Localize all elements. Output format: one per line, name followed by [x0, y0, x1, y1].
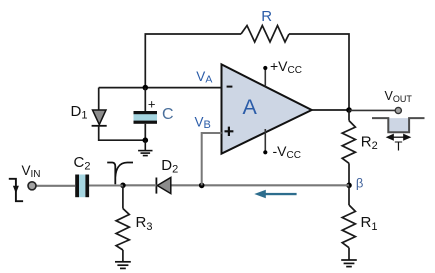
- capacitor C2: [75, 175, 89, 198]
- svg-text:C: C: [162, 106, 174, 123]
- svg-text:R: R: [261, 8, 272, 25]
- svg-text:R2: R2: [361, 134, 378, 153]
- svg-text:VOUT: VOUT: [385, 89, 413, 104]
- node -Vcc dot: [263, 150, 267, 154]
- wire op-amp output: [312, 109, 349, 111]
- svg-text:+: +: [148, 97, 156, 112]
- wire R1 bottom lead: [348, 248, 350, 260]
- svg-text:VA: VA: [196, 69, 212, 86]
- node +Vcc dot: [263, 66, 267, 70]
- arrow current direction: [254, 190, 296, 198]
- ground under R1: [341, 260, 357, 267]
- terminal Vin: [28, 182, 36, 190]
- node junction VA: [143, 85, 149, 91]
- terminal Vout: [395, 107, 401, 113]
- resistor R3: [116, 185, 129, 261]
- svg-text:D2: D2: [161, 157, 178, 176]
- wire R2 top lead: [348, 110, 350, 121]
- node output junction: [346, 107, 352, 113]
- wire D1 bottom lead: [99, 126, 146, 140]
- wire feedback right top: [289, 34, 349, 110]
- waveform output pulse: [372, 118, 425, 132]
- wire D1 top lead: [98, 88, 100, 110]
- svg-text:R1: R1: [361, 214, 378, 233]
- svg-text:VB: VB: [195, 114, 211, 131]
- node beta: [346, 183, 352, 189]
- trigger spike symbol: [107, 163, 133, 185]
- ground under R3: [115, 262, 131, 269]
- label op-amp plus: [225, 127, 234, 136]
- wire inverting input: [99, 87, 222, 89]
- svg-text:+VCC: +VCC: [270, 58, 302, 76]
- wire +Vcc pin: [264, 68, 266, 87]
- wire C2 to junction: [89, 184, 123, 186]
- diode D1: [92, 110, 107, 126]
- waveform input falling edge: [9, 179, 23, 201]
- svg-text:VIN: VIN: [22, 163, 41, 180]
- svg-text:D1: D1: [71, 103, 88, 122]
- resistor R: [241, 26, 289, 43]
- wire to Vout: [349, 109, 395, 111]
- wire R1 top lead: [348, 185, 350, 205]
- node trigger junction: [120, 183, 126, 189]
- node VB junction: [199, 183, 205, 189]
- svg-text:β: β: [356, 175, 363, 190]
- svg-text:-VCC: -VCC: [273, 143, 301, 161]
- svg-text:R3: R3: [136, 214, 153, 233]
- diode D2: [156, 178, 170, 194]
- svg-text:C2: C2: [74, 154, 91, 173]
- wire VB connection: [202, 133, 222, 185]
- op-amp U1: [222, 64, 312, 153]
- wire D2 to junction: [123, 184, 156, 186]
- wire C bottom lead: [144, 124, 146, 140]
- wire R2 bottom lead: [348, 163, 350, 185]
- resistor R2: [342, 121, 355, 164]
- ground under C: [138, 140, 152, 155]
- arrow T width: [387, 135, 409, 140]
- node junction C bottom: [143, 137, 149, 143]
- capacitor C: [134, 111, 158, 124]
- wire C top lead: [144, 88, 146, 111]
- resistor R1: [342, 205, 355, 248]
- svg-text:T: T: [395, 138, 403, 153]
- wire feedback left vertical: [145, 34, 241, 88]
- svg-text:A: A: [243, 95, 258, 119]
- wire Vin to C2: [36, 185, 75, 187]
- label op-amp minus: [227, 86, 233, 88]
- wire -Vcc pin: [264, 129, 266, 152]
- wire trigger line (beta to D2): [171, 184, 349, 186]
